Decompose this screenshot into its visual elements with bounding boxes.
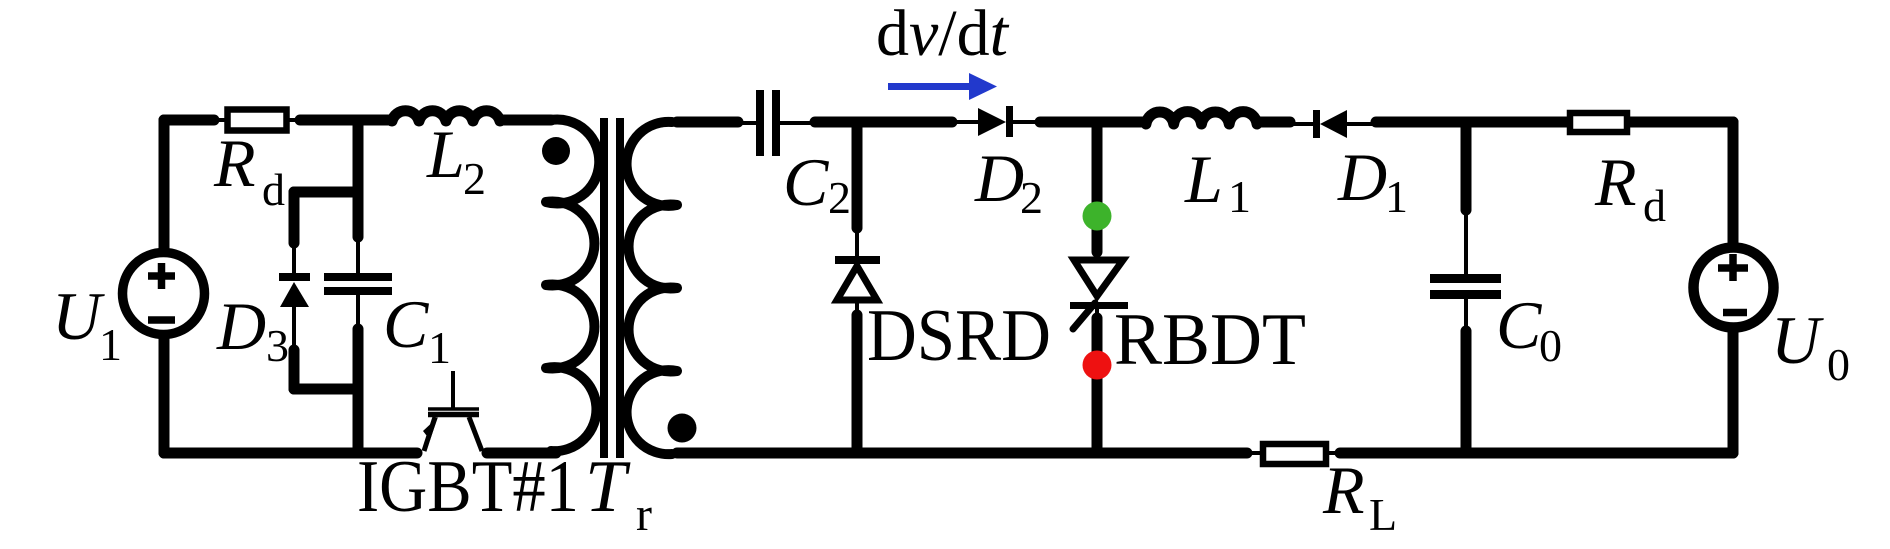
svg-text:d: d (262, 164, 285, 215)
svg-text:2: 2 (828, 172, 851, 223)
svg-text:R: R (213, 125, 256, 201)
svg-text:3: 3 (266, 320, 289, 371)
svg-text:1: 1 (428, 322, 451, 373)
svg-text:R: R (1594, 144, 1637, 220)
svg-text:1: 1 (1228, 171, 1251, 222)
svg-text:2: 2 (463, 153, 486, 204)
svg-text:dv/dt: dv/dt (876, 0, 1010, 70)
svg-text:L: L (426, 116, 465, 192)
svg-text:DSRD: DSRD (867, 295, 1051, 377)
svg-text:0: 0 (1827, 339, 1850, 390)
svg-text:L: L (1369, 489, 1397, 540)
svg-text:U: U (52, 278, 105, 354)
svg-text:D: D (1337, 139, 1387, 215)
svg-text:0: 0 (1539, 320, 1562, 371)
svg-text:L: L (1184, 141, 1223, 217)
svg-text:C: C (1496, 287, 1542, 363)
svg-text:d: d (1643, 180, 1666, 231)
svg-text:C: C (383, 286, 429, 362)
svg-text:RBDT: RBDT (1114, 299, 1306, 381)
svg-text:1: 1 (1385, 171, 1408, 222)
svg-text:IGBT#1: IGBT#1 (357, 446, 579, 528)
svg-text:2: 2 (1020, 172, 1043, 223)
svg-text:T: T (585, 446, 631, 528)
svg-text:D: D (216, 288, 266, 364)
svg-text:R: R (1322, 452, 1365, 528)
svg-text:U: U (1771, 302, 1824, 378)
svg-text:1: 1 (99, 319, 122, 370)
svg-text:D: D (974, 140, 1024, 216)
svg-text:C: C (783, 144, 829, 220)
svg-text:r: r (636, 488, 652, 541)
